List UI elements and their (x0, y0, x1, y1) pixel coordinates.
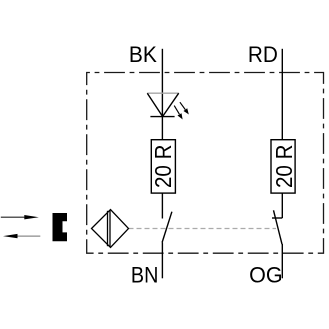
switch S2 blade (NC contact) (274, 210, 283, 244)
switch S1 blade (NO contact) (162, 212, 172, 243)
proximity sensor symbol (diamond) (92, 210, 129, 248)
LED D1 (147, 93, 188, 118)
svg-text:20 R: 20 R (150, 145, 176, 189)
actuation arrow left (retract) (3, 234, 40, 238)
mechanical linkage (gray dashed) (129, 228, 277, 230)
enclosure boundary (dash-dot frame) (87, 73, 324, 254)
svg-text:20 R: 20 R (271, 145, 297, 189)
svg-text:BN: BN (131, 263, 159, 288)
switch S2 stop bar (272, 217, 282, 219)
LED emission arrow 2 (174, 106, 182, 119)
wire R1 to switch S1 (161, 193, 163, 218)
LED triangle sides (147, 93, 178, 116)
wire S1 to BN lead (161, 243, 163, 279)
actuation arrow right (approach) (1, 215, 39, 219)
svg-text:OG: OG (249, 263, 283, 288)
svg-text:RD: RD (248, 42, 278, 67)
wire S2 to OG lead (281, 244, 283, 278)
LED triangle top edge (gray) (147, 92, 178, 94)
wire RD lead (top to resistor R2) (281, 49, 283, 140)
svg-text:BK: BK (129, 42, 157, 67)
wire R2 to switch S2 (281, 193, 283, 218)
LED emission arrow 1 (180, 102, 188, 113)
wire BK lead (top to resistor R1) (161, 49, 163, 140)
LED cathode bar (150, 116, 174, 118)
resistor R2 (271, 140, 297, 193)
resistor R1 (150, 140, 176, 193)
magnet (actuator target) (53, 213, 68, 241)
